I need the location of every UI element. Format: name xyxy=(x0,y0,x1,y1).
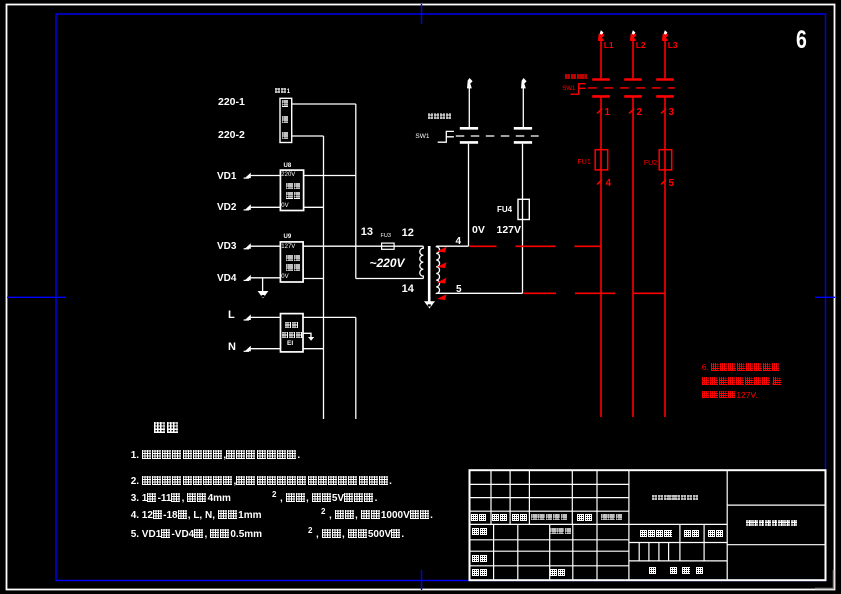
titleblock 阶段标记 xyxy=(640,530,673,539)
wire: filter out top to bus A2 xyxy=(303,316,356,318)
titleblock 标准化 xyxy=(550,528,572,535)
switch pole L3 lower contact xyxy=(656,95,674,98)
wire: L3 drop to switch xyxy=(664,41,666,79)
fuse FU3 xyxy=(382,243,395,249)
wire: L1 below switch to FU1 xyxy=(600,98,602,150)
wire: L2 below switch full drop xyxy=(632,98,634,417)
titleblock header 更改文件号 xyxy=(531,514,568,521)
fuse FU1 xyxy=(595,150,608,170)
note 2 xyxy=(131,476,392,487)
secondary tap arrow 3 xyxy=(437,278,447,284)
connector arrow VD1 xyxy=(245,173,251,179)
switch SW1 pole2 upper contact xyxy=(514,127,532,130)
titleblock 审核 xyxy=(472,555,488,564)
note 5 xyxy=(131,529,262,540)
centering mark bottom xyxy=(421,570,423,590)
filter name line3 xyxy=(287,341,293,348)
project name (right cell) xyxy=(746,520,797,527)
wire: terminal pin1 to right bus xyxy=(292,103,356,105)
white switch designator SW1 xyxy=(415,134,429,141)
title block outer border xyxy=(470,470,826,580)
U8 0V pin label xyxy=(281,203,288,209)
centering mark left xyxy=(7,296,66,298)
FU2 designator xyxy=(644,160,657,167)
FU3 designator xyxy=(381,234,391,240)
terminal glyph 2 xyxy=(282,116,290,124)
transformer ground arrow xyxy=(424,301,435,308)
white switch name xyxy=(428,113,452,120)
wire: VD4 lead xyxy=(251,277,281,279)
wire: primary bottom (pin 14) xyxy=(356,278,424,280)
source arrow (127V line top) xyxy=(521,78,527,88)
label 13 xyxy=(361,227,373,238)
terminal glyph 1 xyxy=(282,100,290,108)
wire: U8 out bottom to bus B xyxy=(304,206,324,208)
module U8 (backup power) box xyxy=(280,170,303,210)
note 1 xyxy=(131,450,301,461)
switch SW1 handle symbol xyxy=(438,131,454,142)
U9 designator xyxy=(284,234,292,240)
red note line3 xyxy=(702,391,758,400)
drawing name (center cell) xyxy=(652,495,698,502)
red dashed tap5 bus to L3 xyxy=(524,292,666,294)
phase arrow L3 xyxy=(662,32,669,41)
label 4 (tap) xyxy=(456,237,462,247)
switch pole L2 lower contact xyxy=(624,95,642,98)
switch SW1 pole1 lower contact xyxy=(460,141,478,144)
note 4 xyxy=(131,510,262,521)
wire: L3 below switch to FU2 xyxy=(664,98,666,150)
label 5 (tap) xyxy=(456,285,462,295)
title block grid lines xyxy=(470,470,826,579)
centering mark right xyxy=(815,296,835,298)
red phase label L1 xyxy=(604,41,614,50)
phase arrow L1 white tip xyxy=(600,30,604,34)
red phase label L2 xyxy=(636,41,646,50)
wire: L lead xyxy=(251,316,281,318)
FU1 designator xyxy=(578,159,591,166)
wire: VD1 lead xyxy=(251,175,281,177)
wire: VD2 lead xyxy=(251,206,281,208)
fuse FU4 xyxy=(518,199,529,219)
wire: FU2 through and down xyxy=(664,150,666,417)
label 14 xyxy=(402,284,414,295)
terminal block XT1 xyxy=(280,98,292,142)
switch SW1 linkage (dashed) xyxy=(456,135,539,137)
plot corner mark bottom-right xyxy=(815,570,834,589)
label 220-2 xyxy=(218,130,245,141)
titleblock header 处数 xyxy=(492,514,508,523)
red terminal label 2 xyxy=(637,108,643,118)
U8 220V pin label xyxy=(281,172,295,178)
switch pole L1 upper contact xyxy=(592,78,610,81)
notes header xyxy=(154,422,180,435)
red note line2 xyxy=(702,377,782,386)
titleblock header 签名 xyxy=(577,514,593,523)
secondary tap arrow 2 xyxy=(437,262,447,268)
red switch linkage (dashed) xyxy=(588,87,675,89)
terminal tick 1 xyxy=(597,109,602,114)
titleblock 批准 xyxy=(550,569,566,578)
U8 designator xyxy=(284,163,292,169)
module U9 (reference power) box xyxy=(280,242,303,282)
red note line1 xyxy=(702,363,781,372)
phase arrow L2 white tip xyxy=(632,30,636,34)
source arrow (0V line top) xyxy=(467,78,473,88)
wire: ground tap from VD4 lead xyxy=(262,278,264,291)
FU4 designator xyxy=(497,206,512,214)
phase arrow L3 white tip xyxy=(664,30,668,34)
wire: 0V line above switch xyxy=(468,88,470,127)
red switch designator SW1 xyxy=(562,86,575,92)
U9 0V pin label xyxy=(281,274,288,280)
wire: 127V line below switch to FU4 xyxy=(522,144,524,200)
switch pole L2 upper contact xyxy=(624,78,642,81)
red terminal label 5 xyxy=(669,179,675,189)
wire: U9 out top / primary feed with FU3 (y=246.2) xyxy=(303,245,423,247)
transformer T1 primary winding xyxy=(420,246,424,278)
wire: vertical bus B (x=323.5) xyxy=(323,136,325,419)
wire: vertical bus A2 (x=355.8 lower) xyxy=(355,317,357,419)
connector arrow L xyxy=(245,315,251,321)
wire: vertical bus A (x=355.8) xyxy=(355,104,357,279)
fuse FU2 xyxy=(659,150,672,170)
connector arrow VD2 xyxy=(245,204,251,210)
switch pole L3 upper contact xyxy=(656,78,674,81)
red switch name xyxy=(565,74,587,81)
secondary tap arrow 4 xyxy=(437,294,447,300)
sheet number 6 xyxy=(796,28,807,53)
wire: filter out bottom to bus B xyxy=(303,348,324,350)
connector arrow VD3 xyxy=(245,243,251,249)
wire: 127V line above switch xyxy=(522,88,524,127)
terminal block label xyxy=(275,88,291,95)
centering mark top xyxy=(421,4,423,24)
label VD2 xyxy=(217,203,236,213)
wire: filter earth stub xyxy=(303,333,311,337)
wire: N lead xyxy=(251,348,281,350)
U9 127V pin label xyxy=(281,244,295,250)
secondary tap arrow 1 xyxy=(437,247,447,253)
label 220-1 xyxy=(218,97,245,108)
titleblock 共 张 第 张 xyxy=(649,567,704,576)
label 12 xyxy=(402,228,414,239)
phase arrow L1 xyxy=(598,32,605,41)
wire: U9 out bottom to bus B xyxy=(303,278,323,280)
phase arrow L2 xyxy=(630,32,637,41)
terminal tick 5 xyxy=(661,180,666,185)
titleblock header 分区 xyxy=(512,514,528,523)
connector arrow N xyxy=(245,346,251,352)
wire: FU1 through and down xyxy=(600,150,602,417)
label 127V xyxy=(497,225,522,236)
label VD4 xyxy=(217,274,236,284)
label L xyxy=(228,310,235,321)
note 3 xyxy=(131,493,231,504)
titleblock 工艺 xyxy=(472,569,488,578)
U9 name (reference power) xyxy=(286,255,301,263)
wire: U8 out top to bus A xyxy=(304,175,356,177)
switch SW1 pole1 upper contact xyxy=(460,127,478,130)
ground symbol (VD4) xyxy=(258,291,269,298)
titleblock header 标记 xyxy=(471,514,487,523)
connector arrow VD4 xyxy=(245,275,251,281)
wire: FU4 to tap5 xyxy=(522,199,524,293)
label N xyxy=(228,342,236,353)
red terminal label 1 xyxy=(605,108,611,118)
terminal tick 3 xyxy=(661,109,666,114)
label ~220V xyxy=(370,257,405,269)
terminal glyph 3 xyxy=(282,132,290,140)
wire: tap 4 (0V) to switch leg xyxy=(436,245,468,247)
filter name line2 xyxy=(282,332,303,340)
label VD1 xyxy=(217,172,236,182)
wire: VD3 lead xyxy=(251,245,281,247)
titleblock 设计 xyxy=(472,528,488,537)
titleblock 比例 xyxy=(708,530,724,539)
wire: 0V line below switch to tap4 xyxy=(468,144,470,247)
transformer secondary winding xyxy=(436,246,439,293)
transformer core xyxy=(428,246,431,302)
red dashed tap4 bus to L1 xyxy=(470,245,602,247)
switch SW1 pole2 lower contact xyxy=(514,141,532,144)
U8 name (backup power) xyxy=(286,183,301,191)
titleblock header 年月日 xyxy=(601,514,623,521)
red phase label L3 xyxy=(668,41,678,50)
wire: L1 drop to switch xyxy=(600,41,602,79)
wire: terminal pin3 to right bus xyxy=(292,135,324,137)
terminal tick 2 xyxy=(629,109,634,114)
red terminal label 4 xyxy=(606,179,612,189)
switch pole L1 lower contact xyxy=(592,95,610,98)
label 0V xyxy=(472,225,485,236)
wire: tap 5 (127V) to FU4 leg xyxy=(436,292,522,294)
label VD3 xyxy=(217,242,236,252)
red terminal label 3 xyxy=(669,108,675,118)
titleblock 重量 xyxy=(684,530,700,539)
wire: L2 drop to switch xyxy=(632,41,634,79)
red switch handle symbol xyxy=(570,84,585,95)
filter name line1 xyxy=(285,322,299,330)
terminal tick 4 xyxy=(597,180,602,185)
ground symbol (filter) xyxy=(308,337,314,341)
module filter box (L/N) xyxy=(281,314,304,352)
